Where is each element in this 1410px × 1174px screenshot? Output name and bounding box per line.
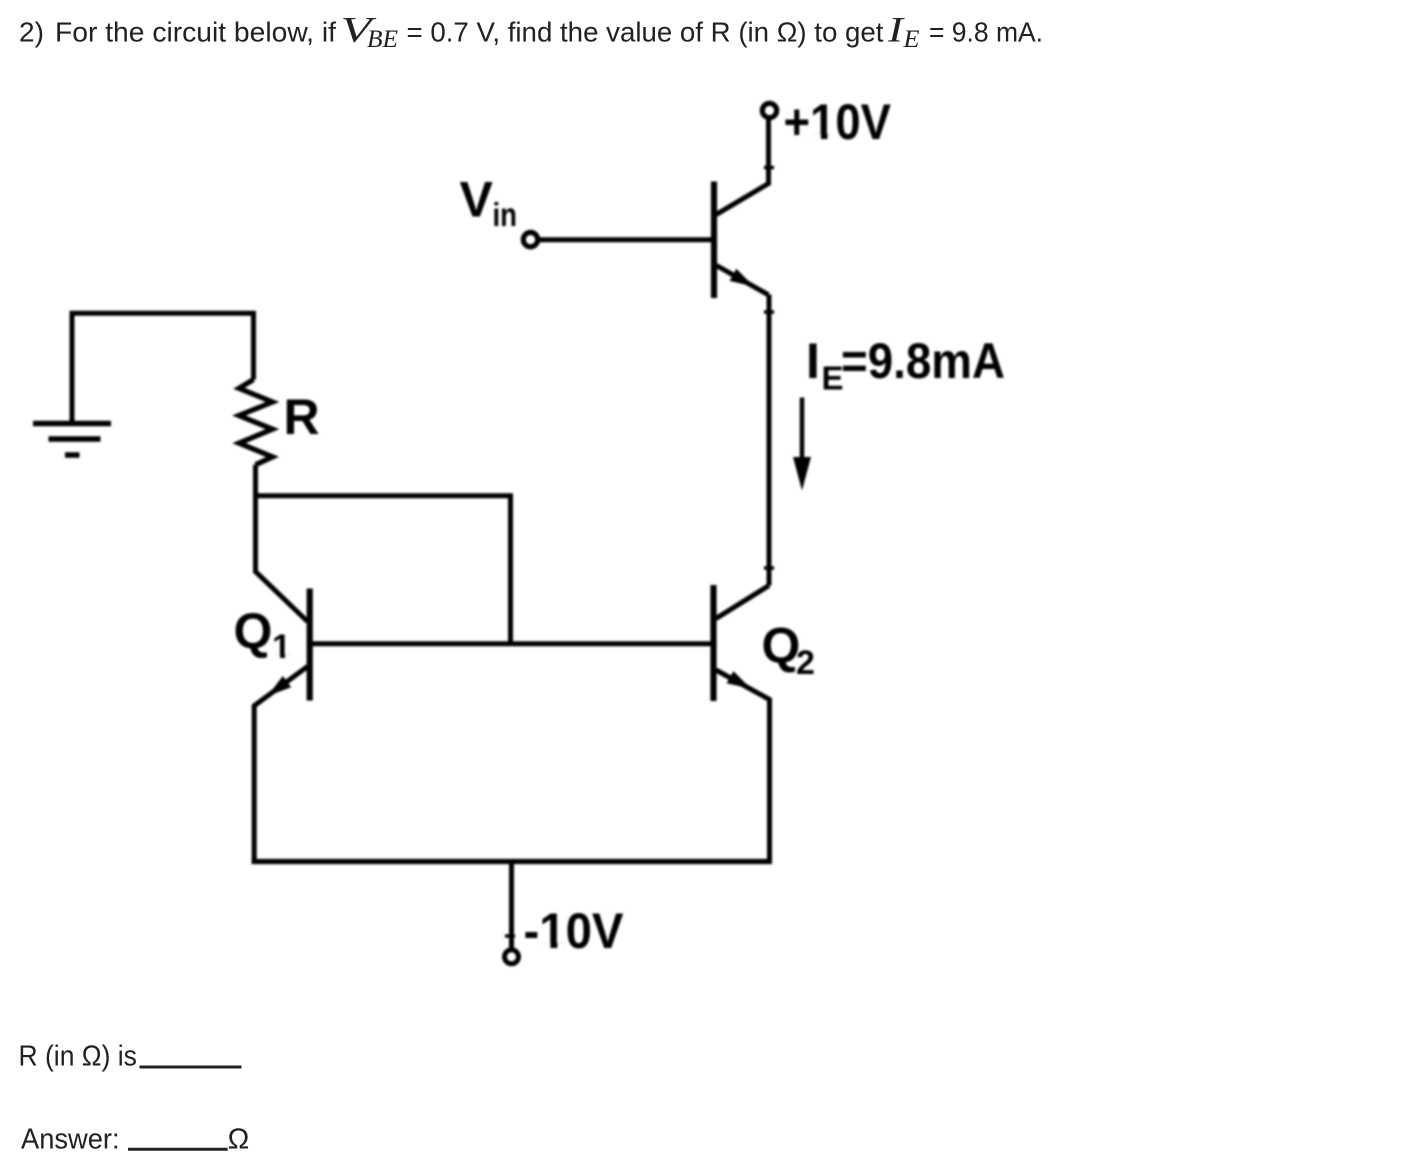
svg-text:BE: BE xyxy=(367,26,398,53)
transistor Q1 base bar xyxy=(307,589,313,701)
ground symbol xyxy=(33,424,111,456)
node tick on -10V stub xyxy=(505,934,515,938)
svg-text:R (in Ω) is: R (in Ω) is xyxy=(19,1041,137,1073)
resistor R xyxy=(239,380,273,465)
white mask: foot of 1 in Q1 subscript xyxy=(273,655,280,661)
wire: ground loop to resistor top xyxy=(72,313,254,423)
Q2 label xyxy=(762,618,815,683)
transistor Q2 emitter arrow xyxy=(727,671,751,689)
node tick on emitter wire lower xyxy=(764,566,774,570)
transistor Q3 emitter xyxy=(717,266,769,295)
svg-text:Q: Q xyxy=(762,618,801,674)
svg-text:Q: Q xyxy=(234,603,273,659)
Q1 label xyxy=(234,603,291,666)
svg-text:= 0.7 V, find the value of R (: = 0.7 V, find the value of R (in Ω) to g… xyxy=(407,16,884,47)
svg-text:I: I xyxy=(806,333,820,389)
svg-text:+10V: +10V xyxy=(784,94,892,150)
svg-text:=9.8mA: =9.8mA xyxy=(841,333,1005,389)
transistor Q2 emitter xyxy=(716,670,770,864)
transistor Q3 base bar xyxy=(711,182,717,299)
svg-text:Answer:: Answer: xyxy=(21,1123,120,1155)
svg-text:For the circuit below, if: For the circuit below, if xyxy=(55,16,336,47)
answer prompt line 1 xyxy=(19,1041,242,1073)
IE=9.8mA label xyxy=(806,333,1005,397)
+10V terminal circle xyxy=(762,103,776,117)
transistor Q2 collector xyxy=(716,586,769,619)
wire: Q3 emitter to Q2 collector xyxy=(767,295,772,586)
wire: bottom emitter rail xyxy=(252,859,772,864)
svg-text:Ω: Ω xyxy=(228,1123,250,1155)
svg-text:2: 2 xyxy=(796,644,815,682)
svg-text:in: in xyxy=(493,196,518,233)
white mask: foot of 1 in -10V xyxy=(542,943,551,950)
node tick on emitter wire upper xyxy=(764,310,774,314)
problem statement text line xyxy=(19,9,1043,53)
svg-text:2): 2) xyxy=(19,16,44,47)
svg-text:E: E xyxy=(902,26,919,53)
node tick on +10V wire xyxy=(764,166,774,170)
wire: rail to -10V terminal xyxy=(509,862,514,949)
wire: base rail Q1 to Q2 xyxy=(312,641,711,646)
transistor Q2 base bar xyxy=(710,585,716,701)
transistor Q1 emitter xyxy=(254,667,307,865)
Vin terminal circle xyxy=(523,232,537,246)
wire: node to Q2 base (over the top) xyxy=(256,496,511,642)
-10V terminal circle xyxy=(505,950,519,964)
IE current arrow xyxy=(793,398,811,491)
svg-text:V: V xyxy=(460,172,494,228)
transistor Q3 emitter arrow xyxy=(730,269,754,287)
white mask: foot of 1 in +10V xyxy=(812,134,821,141)
svg-text:R: R xyxy=(284,389,320,445)
answer prompt line 2 xyxy=(21,1123,249,1155)
wire: resistor bottom to Q1 collector xyxy=(256,465,308,622)
wire: +10V to Q3 collector xyxy=(717,120,769,215)
svg-text:-10V: -10V xyxy=(524,903,625,959)
svg-text:= 9.8 mA.: = 9.8 mA. xyxy=(929,16,1043,47)
svg-text:1: 1 xyxy=(272,628,291,666)
transistor Q1 emitter arrow xyxy=(268,676,292,696)
wire: Vin to Q3 base xyxy=(538,237,712,242)
